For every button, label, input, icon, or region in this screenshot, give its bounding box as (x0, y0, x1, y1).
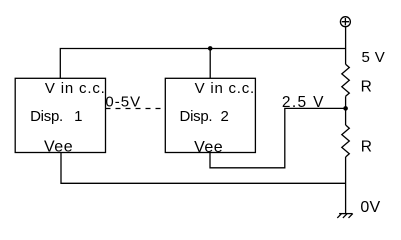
dashed signal line 0-5V between displays (106, 108, 166, 110)
ground symbol bar (339, 213, 352, 215)
svg-text:0-5V: 0-5V (105, 94, 141, 111)
svg-text:1: 1 (74, 108, 82, 125)
svg-text:2.5 V: 2.5 V (282, 94, 325, 111)
wire: supply to resistor R (top) (345, 27, 347, 65)
svg-text:Disp.: Disp. (30, 108, 63, 125)
resistor R (upper) zigzag (342, 64, 350, 96)
supply terminal: circled plus (+5V source) (340, 17, 350, 27)
ground hatch ticks (337, 214, 353, 218)
svg-text:Vee: Vee (194, 139, 223, 156)
svg-text:5 V: 5 V (362, 49, 386, 66)
svg-text:R: R (361, 78, 372, 95)
wire: bottom rail from U1 Vee to ground rail (61, 153, 346, 184)
svg-text:Disp.: Disp. (180, 108, 213, 125)
node: 2.5V junction dot (343, 106, 348, 111)
wire: between resistors through 2.5V node (345, 96, 347, 125)
display block U1 (Disp. 1) (15, 78, 105, 152)
display block U2 (Disp. 2) (165, 78, 255, 152)
node: junction dot on top rail (208, 46, 213, 51)
wire: 2.5V branch to U2 Vee (210, 108, 346, 167)
wire: lower resistor to ground (345, 157, 347, 214)
svg-text:V in c.c.: V in c.c. (45, 80, 106, 97)
wire: junction to U2 V-in (209, 49, 211, 79)
supply plus sign (342, 18, 349, 25)
svg-text:2: 2 (221, 108, 229, 125)
wire: top rail from U1 V-in up and right to +5V rail (60, 49, 345, 79)
svg-text:Vee: Vee (44, 139, 73, 156)
svg-text:R: R (361, 138, 372, 155)
resistor R (lower) zigzag (342, 125, 350, 157)
svg-text:0V: 0V (360, 199, 380, 216)
svg-text:V in c.c.: V in c.c. (195, 80, 255, 97)
